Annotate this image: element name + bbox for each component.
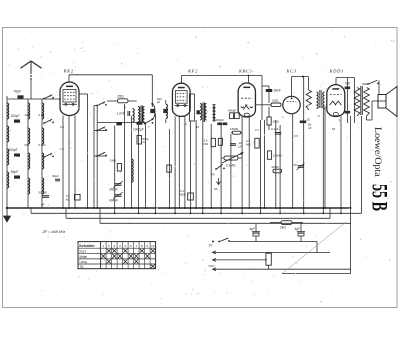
svg-text:30µF: 30µF (52, 174, 59, 178)
svg-text:1MΩ: 1MΩ (110, 159, 117, 163)
svg-text:1MΩ: 1MΩ (272, 99, 279, 103)
svg-text:0.1MΩ: 0.1MΩ (226, 164, 236, 168)
svg-text:1.5: 1.5 (60, 147, 64, 151)
svg-text:Mittel: Mittel (80, 255, 88, 259)
svg-text:2kΩ: 2kΩ (280, 226, 286, 230)
svg-text:500: 500 (25, 143, 30, 147)
svg-text:4µF: 4µF (250, 227, 256, 231)
svg-text:4µF: 4µF (295, 227, 301, 231)
svg-text:25: 25 (307, 118, 311, 122)
svg-text:1000pF: 1000pF (214, 118, 224, 122)
svg-text:KDD1: KDD1 (329, 68, 344, 73)
svg-text:Kurz: Kurz (80, 249, 87, 253)
svg-text:1000pF: 1000pF (133, 127, 144, 131)
svg-text:Schalter: Schalter (79, 243, 95, 248)
svg-text:246pF: 246pF (109, 188, 118, 192)
svg-text:5A: 5A (214, 187, 218, 191)
svg-text:NSV: NSV (209, 264, 215, 268)
svg-text:Loewe/Opta: Loewe/Opta (372, 127, 382, 178)
svg-text:0.000: 0.000 (39, 143, 46, 147)
svg-text:30: 30 (294, 163, 298, 167)
svg-text:100: 100 (25, 113, 30, 117)
svg-text:1MΩ: 1MΩ (273, 120, 280, 124)
svg-text:0.5MΩ: 0.5MΩ (273, 154, 283, 158)
svg-text:50000: 50000 (39, 191, 48, 195)
svg-text:200Ω: 200Ω (272, 165, 280, 169)
svg-text:Lang: Lang (80, 260, 87, 264)
svg-text:KF2: KF2 (187, 68, 198, 73)
svg-text:0.1: 0.1 (255, 128, 259, 132)
svg-text:100pF: 100pF (11, 114, 20, 118)
svg-text:1.2nF: 1.2nF (117, 112, 125, 116)
svg-text:15MΩ: 15MΩ (230, 127, 239, 131)
svg-text:0.06: 0.06 (39, 113, 45, 117)
svg-text:TA: TA (211, 173, 215, 177)
svg-text:25Ω: 25Ω (118, 94, 125, 98)
svg-text:55 B: 55 B (368, 184, 392, 211)
svg-text:10: 10 (151, 244, 155, 248)
svg-text:nF: nF (308, 126, 312, 130)
svg-text:70pF: 70pF (14, 90, 22, 94)
svg-text:KK2: KK2 (63, 68, 74, 73)
svg-text:0.5: 0.5 (294, 134, 298, 138)
svg-text:10: 10 (196, 125, 200, 129)
svg-text:ZF = 468 kHz: ZF = 468 kHz (42, 230, 66, 234)
svg-text:pF: pF (41, 203, 45, 207)
svg-text:18: 18 (332, 127, 336, 131)
svg-text:434pF: 434pF (109, 199, 118, 203)
svg-text:300pF: 300pF (9, 148, 18, 152)
svg-text:18nF: 18nF (274, 89, 281, 93)
svg-text:KBC1: KBC1 (238, 68, 253, 73)
svg-text:pF: pF (157, 100, 161, 104)
svg-text:640pF: 640pF (228, 108, 236, 112)
svg-text:µF: µF (239, 144, 243, 148)
svg-text:KC3: KC3 (286, 68, 297, 73)
svg-text:0.5: 0.5 (60, 125, 64, 129)
svg-text:80pF: 80pF (11, 170, 18, 174)
svg-text:0.1µF: 0.1µF (271, 127, 279, 131)
